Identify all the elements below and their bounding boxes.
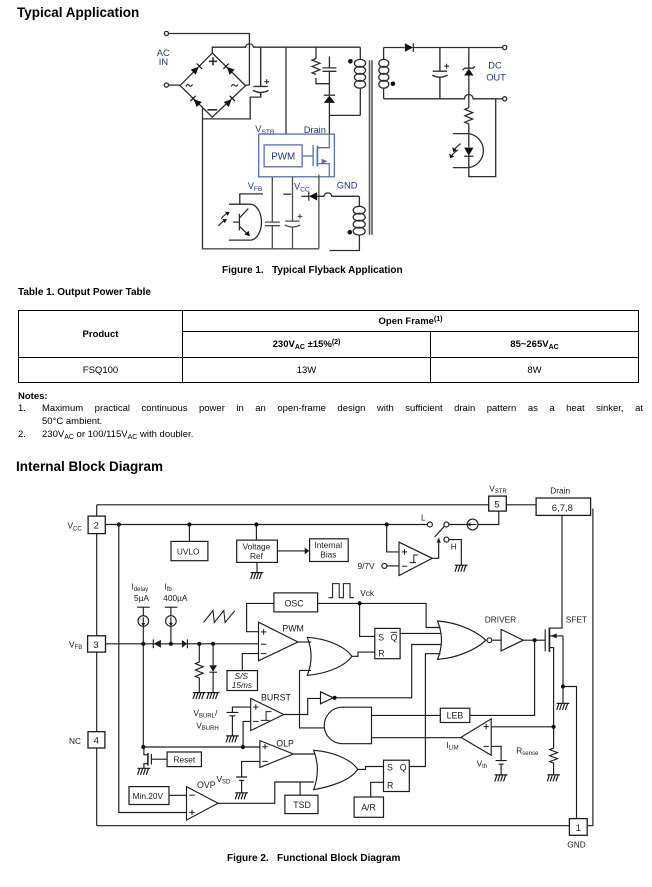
svg-text:Q: Q [391,633,398,643]
svg-text:5µA: 5µA [134,593,149,603]
wire VFB net [106,643,259,645]
svg-text:Idelay: Idelay [132,582,149,594]
current source Ifb [165,607,178,616]
svg-text:5: 5 [494,500,499,511]
wire Vcc tap to comparator + [387,525,399,552]
pin 1 (GND) [569,819,587,836]
table output power [18,310,639,383]
wire - node to bulk cap bottom [203,93,261,119]
wire secondary top to output diode [384,47,405,49]
wire VFB pin down [271,177,273,222]
heading Table 1 [18,287,151,298]
svg-text:Q: Q [400,763,407,773]
opto LED emission arrows [454,144,461,151]
svg-text:VBURL/: VBURL/ [193,708,218,720]
transformer auxiliary winding [358,196,360,206]
opto transistor collector lead [229,194,263,204]
wire PWM to gate [302,155,313,157]
svg-text:PWM: PWM [282,623,304,633]
svg-text:VFB: VFB [248,181,263,193]
wire output rail [413,47,502,49]
svg-text:S: S [387,763,393,773]
node VSTR wire from rail to IC [285,47,287,134]
svg-text:OVP: OVP [197,780,216,790]
resistor to ground on VFB [195,644,203,693]
figure 2 block diagram svg [0,478,652,853]
bridge diode D3 (upper-left edge) [191,63,203,75]
svg-text:OLP: OLP [276,738,294,748]
svg-text:Min.20V: Min.20V [133,791,164,801]
svg-text:R: R [378,648,384,658]
VCC diode DA [301,195,308,197]
Min.20V block [129,787,169,805]
bridge ~ mark right [231,84,238,86]
comparator ILIM [461,719,491,755]
wire latch1 Qbar to NOR [400,632,441,634]
NOR gate (driver input) [438,621,486,659]
wire TSD up to OR2 line [299,782,301,795]
svg-text:NC: NC [69,736,81,746]
notes [18,391,48,402]
svg-text:9/7V: 9/7V [358,561,376,571]
output capacitor Co [432,48,447,99]
wire OR1 out to latch1 R [352,652,375,656]
Vth source [496,761,507,775]
wire BURST out to buffer [284,698,321,714]
bridge diode D2 (lower-right edge) [224,95,236,107]
current source Idelay [137,607,150,616]
svg-text:4: 4 [94,736,99,747]
wire stub to Voltage Ref [255,525,257,541]
wire S/S to PWM - [242,654,258,671]
wire A/R to latch2 R [371,782,384,797]
diode on VFB net (left) [152,639,154,648]
wire OSC to PWM + [247,603,274,631]
svg-text:S: S [378,633,384,643]
svg-text:DC: DC [488,61,502,71]
bridge + mark [209,57,217,65]
startup current source [467,519,478,530]
svg-text:Vck: Vck [360,588,375,598]
wire 9/7V to comparator - [387,565,399,567]
wire ILIM out to AND [372,737,461,739]
svg-text:VCC: VCC [294,182,310,194]
svg-text:Ifb: Ifb [164,582,172,594]
PWM block box [264,145,302,167]
svg-text:Drain: Drain [304,125,326,135]
diode on VFB net (right) [182,640,187,648]
wire PWM out to OR1 [298,641,311,643]
bulk capacitor + mark [264,79,269,84]
svg-text:Vth: Vth [477,758,488,770]
svg-text:IN: IN [159,57,168,67]
Reset block [167,752,201,767]
VBUR source [226,712,238,736]
OR gate 1 [307,637,352,675]
svg-text:Reset: Reset [174,755,196,765]
switch contact H [444,537,449,542]
pin 3 (VFB) [88,636,106,652]
wire OLP line [143,746,260,748]
DC OUT terminal + [503,45,507,49]
transformer core [370,60,373,235]
AC line terminal bottom [164,83,168,87]
svg-text:VFB: VFB [69,639,82,651]
secondary phase dot [391,82,396,87]
svg-text:TSD: TSD [293,800,311,810]
svg-text:VSTR: VSTR [489,483,507,495]
output capacitor + mark [444,64,449,69]
zener diode ZD [463,48,475,71]
VSD source [236,777,247,793]
pin 4 (NC) [88,732,105,748]
opto transistor symbol [233,209,249,236]
wire pivot to startup source [449,524,467,526]
wire zener through bottom rail to resistor [468,76,470,108]
wire stub to UVLO [188,525,190,542]
wire Vck branch to latch1 S [360,603,375,636]
snubber wire down to diode [328,84,330,95]
wire gate node to LEB [470,640,535,715]
capacitor C-FB [265,222,280,226]
bridge diode D4 (upper-right edge) [223,63,235,75]
opto-coupler LED package [453,134,483,168]
svg-text:GND: GND [337,180,358,190]
wire OR2 out to latch2 S [358,767,384,770]
arrow Voltage Ref to Internal Bias [277,550,305,552]
ground under Voltage Ref [256,562,258,572]
pin 5 (VSTR) [489,496,507,511]
wire aux diode to aux winding with hop [317,193,359,196]
wire latch2 Q up to NOR [409,654,440,767]
reset MOSFET [151,754,167,765]
svg-text:VBURH: VBURH [196,720,219,732]
wire NOR to driver [492,639,501,641]
junction dots [117,522,121,526]
pin 2 (Vcc) [88,516,105,534]
primary phase dot [348,59,353,64]
wire AC bottom to bridge left vertex [169,84,181,86]
svg-text:6,7,8: 6,7,8 [552,503,573,514]
bottom output rail with hop [384,95,503,99]
arrow comparator output to switch [432,542,438,558]
wire buffer out to NOR [335,645,442,698]
bridge - mark [208,109,218,111]
SFET MOSFET [544,629,546,651]
aux phase dot [348,230,353,235]
TSD block [285,795,318,813]
opto transistor package arc [251,204,262,240]
wire bridge - tap down to bottom bus [202,108,204,249]
UVLO block [171,541,208,560]
wire aux bottom to ground bus [330,235,360,251]
comparator OVP [187,787,219,821]
wire startup source to pin 5 [478,511,499,524]
Voltage Ref block [237,540,278,562]
bridge ~ mark left [186,84,193,86]
bridge diode D1 (lower-left edge) [190,95,202,107]
opto photon arrows [221,213,228,219]
bulk capacitor C1 [253,47,269,97]
snubber capacitor Csn [322,56,336,83]
BURST buffer [321,692,334,704]
svg-text:H: H [451,542,457,552]
comparator PWM [259,622,298,661]
opto LED [464,148,473,156]
IC outline box (blue) [259,134,335,177]
heading Internal Block Diagram [16,459,163,474]
svg-text:R: R [387,780,393,790]
wire Vcc bus [105,524,427,526]
outer border right [592,509,594,826]
OSC block [274,593,318,612]
wire VCC pin down [292,177,294,221]
svg-text:LEB: LEB [447,711,464,721]
svg-text:1: 1 [576,823,581,834]
A/R block [354,797,383,817]
svg-text:15ms: 15ms [232,680,252,690]
wire drain pin down to SFET [550,515,563,628]
resistor Rsense [550,727,558,775]
C-VCC + mark [298,214,303,219]
svg-text:ILIM: ILIM [446,740,458,752]
ground under H contact [455,565,468,572]
zener to ground on VFB [212,644,214,665]
wire AC top to bridge right vertex [169,34,250,86]
wire driver to SFET gate [523,639,545,641]
AC line terminal top [164,31,168,35]
svg-text:OUT: OUT [486,73,506,83]
caption figure 2 [227,853,400,864]
wire LED to return [469,99,496,177]
svg-text:UVLO: UVLO [177,546,200,556]
wire stub VCC [283,193,291,195]
wire OLP - to VSD [242,761,260,776]
wire AND out to OR1 input [300,670,325,728]
wire VFB branch down to OLP line [142,644,144,747]
snubber diode Dsn [324,94,335,96]
outer border bottom [97,825,593,827]
latch1 Qbar overbar [391,631,398,633]
svg-text:VCC: VCC [68,521,83,533]
IC MOSFET [312,145,314,166]
switch blade [435,526,445,537]
comparator 9/7V [399,542,432,575]
svg-text:400µA: 400µA [163,593,188,603]
svg-text:SFET: SFET [566,614,587,624]
svg-text:BURST: BURST [261,692,291,702]
AND gate (points left) [324,707,371,744]
DRIVER buffer [501,629,523,651]
wire Min.20V to OVP - [169,794,187,796]
clock waveform [328,584,354,598]
transformer secondary winding [383,48,385,99]
caption figure 1 [222,265,403,276]
opto transistor emitter lead [229,239,251,241]
feedback resistor R1 [465,108,473,148]
Internal Bias block [310,539,349,562]
wire OVP out joining TSD to OR2 [218,782,314,803]
wire Vck [318,603,441,627]
wire ILIM - to Vth [491,746,501,760]
svg-text:Rsense: Rsense [516,745,539,757]
wire SFET body to ground and pin1 [563,636,577,819]
svg-text:PWM: PWM [271,152,295,163]
svg-text:2: 2 [94,521,99,532]
outer border left [96,505,98,826]
pins 6,7,8 (Drain) [536,498,591,515]
svg-text:VSD: VSD [217,774,232,786]
S/S 15ms block [227,671,258,691]
latch 1 (S Qbar R) [375,628,400,658]
latch 2 (S Q R) [384,760,410,791]
wire LEB to AND [372,714,441,716]
comparator BURST [251,698,284,730]
DC OUT terminal - [503,97,507,101]
switch pivot contact [444,522,449,527]
svg-text:3: 3 [93,640,98,651]
svg-text:Ref: Ref [250,551,264,561]
comparator OLP [260,741,294,768]
wire internal Vcc rail down left side [119,525,187,813]
wire GND pin down and bottom bus [202,175,319,249]
input terminal 9/7V [382,563,387,568]
heading Typical Application [17,5,139,20]
output rectifier diode [405,43,413,52]
wire OLP out to OR2 [293,753,315,755]
wire diode to drain node [329,103,360,134]
svg-text:GND: GND [567,839,585,849]
snubber resistor Rsn [312,47,329,83]
transformer primary winding [359,47,361,59]
bridge rectifier diamond [180,53,246,117]
svg-text:L: L [421,512,426,522]
svg-text:A/R: A/R [361,803,376,813]
capacitor C-VCC [285,221,300,249]
sawtooth waveform [204,611,235,623]
wire BURST - down to OLP line [243,721,251,747]
LEB block [440,708,470,722]
svg-text:Drain: Drain [550,486,570,496]
wire sense node to ILIM + [491,726,553,728]
OR gate 2 [314,750,358,789]
wire bridge + output to top rail [212,44,360,53]
svg-text:DRIVER: DRIVER [485,614,516,624]
figure 1 schematic svg [0,0,652,282]
svg-text:OSC: OSC [285,598,305,608]
wire H contact to ground [449,540,461,566]
svg-text:Bias: Bias [320,550,336,560]
outer border top [97,504,536,506]
switch contact L [427,522,432,527]
